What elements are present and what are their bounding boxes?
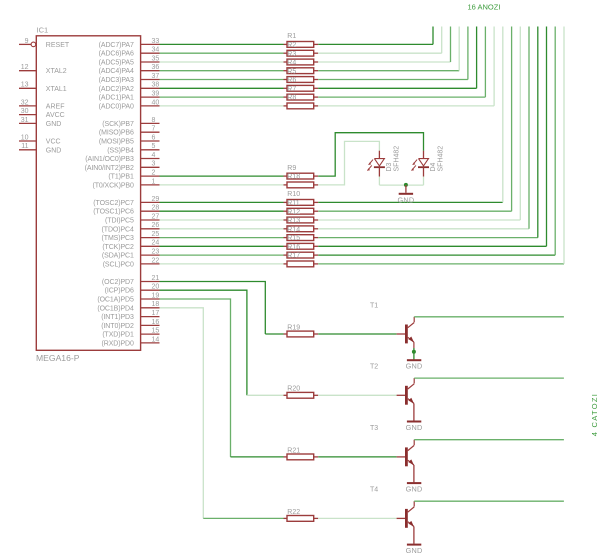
- svg-text:34: 34: [152, 47, 160, 54]
- wire T3 collector to 4-cathode bus: [414, 439, 564, 441]
- IC1 pin 7 (MISO)PB6: [99, 126, 160, 137]
- wire R12 to 16-anode bus: [318, 27, 520, 221]
- svg-text:(OC1B)PD4: (OC1B)PD4: [97, 305, 134, 312]
- IC1 pin 8 (SCK)PB7: [102, 117, 159, 128]
- wire R10 to 16-anode bus: [318, 27, 503, 203]
- svg-text:38: 38: [152, 82, 160, 89]
- svg-text:9: 9: [25, 38, 29, 45]
- svg-text:40: 40: [152, 99, 160, 106]
- wire pin PA5 to R3: [160, 61, 284, 63]
- wire R16 to 16-anode bus: [318, 27, 555, 256]
- LED D3 SFH482: [367, 146, 400, 177]
- resistor R15: [284, 235, 319, 249]
- wire R4 to 16-anode bus: [318, 27, 459, 71]
- wire R2 to 16-anode bus: [318, 27, 442, 54]
- IC1 pin 14 (RXD)PD0: [102, 336, 160, 347]
- svg-text:(INT0)PD2: (INT0)PD2: [101, 323, 134, 330]
- wire R15 to 16-anode bus: [318, 27, 546, 247]
- svg-text:MEGA16-P: MEGA16-P: [36, 353, 80, 363]
- svg-text:R7: R7: [287, 86, 296, 93]
- net label 16 ANOZI: [468, 2, 501, 11]
- ground GND under T2: [406, 422, 423, 433]
- svg-text:R2: R2: [287, 42, 296, 49]
- IC1 pin 33 (ADC7)PA7: [99, 38, 160, 49]
- IC1 pin 17 (INT1)PD3: [101, 310, 159, 321]
- wire R5 to 16-anode bus: [318, 27, 468, 80]
- ground GND under LEDs: [397, 185, 414, 204]
- svg-text:32: 32: [21, 99, 29, 106]
- wire T4 collector to 4-cathode bus: [414, 500, 564, 502]
- IC1 pin 18 (OC1B)PD4: [97, 301, 159, 312]
- svg-text:D3: D3: [386, 162, 393, 171]
- IC1 pin 3 (AIN0/INT2)PB2: [85, 161, 160, 172]
- svg-text:R21: R21: [287, 447, 300, 454]
- svg-text:(ADC4)PA4: (ADC4)PA4: [99, 68, 134, 75]
- svg-text:19: 19: [152, 292, 160, 299]
- svg-text:(ADC3)PA3: (ADC3)PA3: [99, 77, 134, 84]
- svg-text:T1: T1: [370, 302, 378, 309]
- svg-text:R5: R5: [287, 68, 296, 75]
- resistor R3: [284, 51, 319, 65]
- svg-text:36: 36: [152, 64, 160, 71]
- resistor R19: [284, 324, 319, 337]
- svg-text:37: 37: [152, 73, 160, 80]
- transistor T3: [370, 425, 414, 466]
- wire pin PA3 to R5: [160, 79, 284, 81]
- IC1 name label: [37, 25, 49, 34]
- IC1 pin 22 (SCL)PC0: [103, 257, 160, 268]
- svg-text:T4: T4: [370, 487, 378, 494]
- resistor R9: [284, 165, 319, 179]
- svg-text:(MOSI)PB5: (MOSI)PB5: [99, 139, 134, 146]
- wire pin PA7 to R1: [160, 43, 284, 45]
- svg-text:(ADC5)PA5: (ADC5)PA5: [99, 60, 134, 67]
- svg-text:R22: R22: [287, 509, 300, 516]
- wire T4 emitter to GND: [413, 527, 415, 544]
- resistor R20: [284, 386, 319, 398]
- wire R19 to T1 base: [318, 333, 396, 335]
- svg-text:(OC1A)PD5: (OC1A)PD5: [97, 297, 134, 304]
- wire D3/D4 cathodes to GND: [379, 177, 423, 186]
- wire R14 to 16-anode bus: [318, 27, 538, 238]
- wire pin PC2 to R15: [160, 245, 284, 247]
- svg-text:(SCL)PC0: (SCL)PC0: [103, 261, 134, 268]
- wire pin PC7 to R10: [160, 201, 284, 203]
- svg-text:16: 16: [152, 319, 160, 326]
- svg-text:GND: GND: [46, 147, 62, 154]
- svg-text:17: 17: [152, 310, 160, 317]
- svg-text:GND: GND: [46, 121, 62, 128]
- resistor R11: [284, 200, 319, 214]
- IC1 pin 40 (ADC0)PA0: [99, 99, 160, 110]
- svg-text:(T0/XCK)PB0: (T0/XCK)PB0: [92, 182, 134, 189]
- svg-text:11: 11: [21, 143, 28, 150]
- svg-text:6: 6: [152, 134, 156, 141]
- resistor R5: [284, 68, 319, 82]
- IC1 pin 4 (AIN1/OC0)PB3: [85, 152, 159, 163]
- wire R20 to T2 base: [318, 394, 396, 396]
- IC1 pin 36 (ADC4)PA4: [99, 64, 160, 75]
- svg-text:(T1)PB1: (T1)PB1: [108, 174, 134, 181]
- wire R7 to 16-anode bus: [318, 27, 485, 98]
- IC1 pin 20 (ICP)PD6: [105, 284, 160, 295]
- svg-text:(TOSC1)PC6: (TOSC1)PC6: [93, 209, 134, 216]
- svg-text:R8: R8: [287, 95, 296, 102]
- wire T2 emitter to GND: [413, 403, 415, 420]
- svg-text:16 ANOZI: 16 ANOZI: [468, 2, 501, 11]
- resistor R10: [284, 191, 319, 205]
- wire R22 to T4 base: [318, 517, 396, 519]
- resistor R6: [284, 77, 319, 91]
- svg-text:GND: GND: [397, 195, 414, 204]
- svg-text:13: 13: [21, 82, 29, 89]
- resistor R7: [284, 86, 319, 100]
- wire R3 to 16-anode bus: [318, 27, 450, 63]
- resistor R8: [284, 95, 319, 109]
- svg-text:R16: R16: [287, 244, 300, 251]
- svg-text:GND: GND: [406, 362, 423, 371]
- svg-text:T2: T2: [370, 364, 378, 371]
- svg-text:D4: D4: [430, 162, 437, 171]
- IC1 pin 38 (ADC2)PA2: [99, 82, 160, 93]
- wire pin PC5 to R12: [160, 219, 284, 221]
- svg-text:10: 10: [21, 134, 29, 141]
- wire pin PC4 to R13: [160, 228, 284, 230]
- svg-text:15: 15: [152, 328, 160, 335]
- IC1 pin 21 (OC2)PD7: [102, 275, 160, 286]
- svg-text:(RXD)PD0: (RXD)PD0: [102, 340, 134, 347]
- IC1 pin 27 (TDI)PC5: [105, 213, 159, 224]
- wire R11 to 16-anode bus: [318, 27, 511, 212]
- svg-text:39: 39: [152, 91, 160, 98]
- IC1 pin 23 (SDA)PC1: [102, 249, 160, 260]
- IC1 value MEGA16-P: [36, 353, 80, 363]
- svg-text:R4: R4: [287, 60, 296, 67]
- IC1 pin 5 (SS)PB4: [107, 143, 159, 154]
- svg-text:IC1: IC1: [37, 25, 49, 34]
- IC1 pin 39 (ADC1)PA1: [99, 91, 160, 102]
- svg-text:(SS)PB4: (SS)PB4: [107, 147, 134, 154]
- resistor R18: [284, 174, 319, 188]
- transistor T1: [370, 302, 414, 343]
- wire pin PC0 to R17: [160, 263, 284, 265]
- wire pin PD6 to R20: [160, 290, 284, 395]
- svg-text:27: 27: [152, 213, 160, 220]
- IC1 pin 32 AREF: [19, 99, 64, 110]
- svg-text:2: 2: [152, 170, 156, 177]
- svg-text:SFH482: SFH482: [437, 146, 444, 172]
- IC1 pin 29 (TOSC2)PC7: [93, 196, 159, 207]
- svg-text:31: 31: [21, 117, 29, 124]
- svg-text:(SDA)PC1: (SDA)PC1: [102, 253, 134, 260]
- svg-text:(TOSC2)PC7: (TOSC2)PC7: [93, 200, 134, 207]
- svg-text:R13: R13: [287, 218, 300, 225]
- svg-text:7: 7: [152, 126, 156, 133]
- wire pin PC6 to R11: [160, 210, 284, 212]
- resistor R17: [284, 253, 319, 267]
- net label 4 CATOZI: [590, 393, 599, 436]
- svg-text:28: 28: [152, 205, 160, 212]
- svg-text:18: 18: [152, 301, 160, 308]
- svg-text:AVCC: AVCC: [46, 112, 65, 119]
- svg-text:(TMS)PC3: (TMS)PC3: [102, 235, 134, 242]
- IC1 pin 19 (OC1A)PD5: [97, 292, 159, 303]
- wire T2 collector to 4-cathode bus: [414, 377, 564, 379]
- svg-text:VCC: VCC: [46, 139, 61, 146]
- wire R8 to 16-anode bus: [318, 27, 494, 106]
- ground GND under T4: [406, 545, 423, 556]
- svg-text:R14: R14: [287, 226, 300, 233]
- IC1 pin 6 (MOSI)PB5: [99, 134, 160, 145]
- svg-text:SFH482: SFH482: [393, 146, 400, 172]
- junction at LED cathode node: [404, 183, 408, 187]
- svg-text:30: 30: [21, 108, 29, 115]
- transistor T2: [370, 364, 414, 405]
- svg-text:R19: R19: [287, 324, 300, 331]
- svg-text:R20: R20: [287, 386, 300, 393]
- IC1 pin 12 XTAL2: [19, 64, 67, 75]
- resistor R12: [284, 209, 319, 223]
- IC1 pin 11 GND: [19, 143, 61, 154]
- svg-text:GND: GND: [406, 546, 423, 555]
- IC1 pin 25 (TMS)PC3: [102, 231, 160, 242]
- svg-text:R18: R18: [287, 174, 300, 181]
- wire R6 to 16-anode bus: [318, 27, 476, 89]
- resistor R16: [284, 244, 319, 258]
- svg-text:(SCK)PB7: (SCK)PB7: [102, 121, 134, 128]
- IC1 pin 34 (ADC6)PA6: [99, 47, 160, 58]
- svg-text:R10: R10: [287, 191, 300, 198]
- IC1 pin 15 (TXD)PD1: [102, 328, 159, 339]
- svg-text:GND: GND: [406, 485, 423, 494]
- ground GND under T1: [406, 360, 423, 371]
- wire pin PC3 to R14: [160, 237, 284, 239]
- svg-text:33: 33: [152, 38, 160, 45]
- wire T1 collector to 4-cathode bus: [414, 316, 564, 318]
- svg-text:(OC2)PD7: (OC2)PD7: [102, 279, 134, 286]
- svg-text:8: 8: [152, 117, 156, 124]
- IC1 pin 26 (TDO)PC4: [102, 222, 160, 233]
- IC1 pin 30 AVCC: [19, 108, 65, 119]
- svg-text:5: 5: [152, 143, 156, 150]
- svg-text:(MISO)PB6: (MISO)PB6: [99, 130, 134, 137]
- wire R1 to 16-anode bus: [318, 27, 433, 45]
- svg-text:21: 21: [152, 275, 160, 282]
- svg-text:R9: R9: [287, 165, 296, 172]
- IC1 pin 9 RESET: [19, 38, 70, 49]
- IC1 pin 13 XTAL1: [19, 82, 67, 93]
- svg-text:(ADC7)PA7: (ADC7)PA7: [99, 42, 134, 49]
- IC1 pin 37 (ADC3)PA3: [99, 73, 160, 84]
- svg-text:(INT1)PD3: (INT1)PD3: [101, 314, 134, 321]
- IC1 pin 10 VCC: [19, 134, 61, 145]
- svg-text:AREF: AREF: [46, 103, 65, 110]
- wire R13 to 16-anode bus: [318, 27, 529, 229]
- IC1 pin 2 (T1)PB1: [108, 170, 159, 181]
- svg-text:(TCK)PC2: (TCK)PC2: [102, 244, 134, 251]
- svg-text:23: 23: [152, 249, 160, 256]
- junction at T1 emitter node: [412, 350, 416, 354]
- wire pin PA6 to R2: [160, 52, 284, 54]
- svg-text:R1: R1: [287, 33, 296, 40]
- wire R17 to 16-anode bus: [318, 27, 564, 264]
- wire T1 emitter to GND: [413, 342, 415, 359]
- transistor T4: [370, 487, 414, 528]
- wire T3 emitter to GND: [413, 465, 415, 482]
- svg-text:4 CATOZI: 4 CATOZI: [590, 393, 599, 436]
- wire pin PA0 to R8: [160, 105, 284, 107]
- resistor R14: [284, 226, 319, 240]
- wire pin PA1 to R7: [160, 96, 284, 98]
- svg-text:22: 22: [152, 257, 160, 264]
- IC IC1 MEGA16-P: [36, 36, 140, 351]
- svg-text:XTAL1: XTAL1: [46, 86, 67, 93]
- wire pin PB1 to R9: [160, 175, 284, 177]
- wire pin PA4 to R4: [160, 70, 284, 72]
- svg-text:(ADC2)PA2: (ADC2)PA2: [99, 86, 134, 93]
- svg-text:RESET: RESET: [46, 42, 70, 49]
- IC1 pin 1 (T0/XCK)PB0: [92, 178, 159, 189]
- wire pin PB0 to R18: [160, 184, 284, 186]
- svg-text:26: 26: [152, 222, 160, 229]
- IC1 pin 35 (ADC5)PA5: [99, 55, 160, 66]
- svg-text:(TXD)PD1: (TXD)PD1: [102, 332, 134, 339]
- svg-text:(ICP)PD6: (ICP)PD6: [105, 288, 134, 295]
- svg-text:R3: R3: [287, 51, 296, 58]
- svg-text:(TDO)PC4: (TDO)PC4: [102, 226, 134, 233]
- svg-text:20: 20: [152, 284, 160, 291]
- IC1 pin 31 GND: [19, 117, 61, 128]
- svg-text:R12: R12: [287, 209, 300, 216]
- svg-text:T3: T3: [370, 425, 378, 432]
- svg-text:24: 24: [152, 240, 160, 247]
- svg-text:R6: R6: [287, 77, 296, 84]
- resistor R2: [284, 42, 319, 56]
- svg-text:(TDI)PC5: (TDI)PC5: [105, 218, 134, 225]
- wire pin PD4 to R22: [160, 308, 284, 519]
- svg-text:25: 25: [152, 231, 160, 238]
- wire R18 to LED D3 anode: [318, 141, 379, 185]
- svg-text:29: 29: [152, 196, 160, 203]
- wire R21 to T3 base: [318, 456, 396, 458]
- svg-text:(AIN1/OC0)PB3: (AIN1/OC0)PB3: [85, 156, 134, 163]
- svg-text:(ADC0)PA0: (ADC0)PA0: [99, 103, 134, 110]
- svg-text:3: 3: [152, 161, 156, 168]
- svg-text:XTAL2: XTAL2: [46, 68, 67, 75]
- svg-text:GND: GND: [406, 423, 423, 432]
- wire pin PA2 to R6: [160, 87, 284, 89]
- wire R9 to LED D4 anode: [318, 133, 423, 176]
- svg-text:35: 35: [152, 55, 160, 62]
- LED D4 SFH482: [412, 146, 445, 177]
- resistor R1: [284, 33, 319, 47]
- svg-text:4: 4: [152, 152, 156, 159]
- svg-text:R11: R11: [287, 200, 299, 207]
- wire pin PD5 to R21: [160, 299, 284, 457]
- ground GND under T3: [406, 483, 423, 494]
- svg-text:(AIN0/INT2)PB2: (AIN0/INT2)PB2: [85, 165, 134, 172]
- resistor R22: [284, 509, 319, 522]
- resistor R13: [284, 218, 319, 232]
- svg-text:(ADC6)PA6: (ADC6)PA6: [99, 51, 134, 58]
- svg-text:1: 1: [152, 178, 156, 185]
- resistor R21: [284, 447, 319, 460]
- wire pin PD7 to R19: [160, 282, 284, 335]
- resistor R4: [284, 60, 319, 74]
- svg-text:(ADC1)PA1: (ADC1)PA1: [99, 95, 134, 102]
- wire pin PC1 to R16: [160, 254, 284, 256]
- svg-text:14: 14: [152, 336, 160, 343]
- svg-text:R15: R15: [287, 235, 300, 242]
- svg-text:R17: R17: [287, 253, 300, 260]
- IC1 pin 24 (TCK)PC2: [102, 240, 159, 251]
- IC1 pin 16 (INT0)PD2: [101, 319, 159, 330]
- IC1 pin 28 (TOSC1)PC6: [93, 205, 159, 216]
- svg-text:12: 12: [21, 64, 29, 71]
